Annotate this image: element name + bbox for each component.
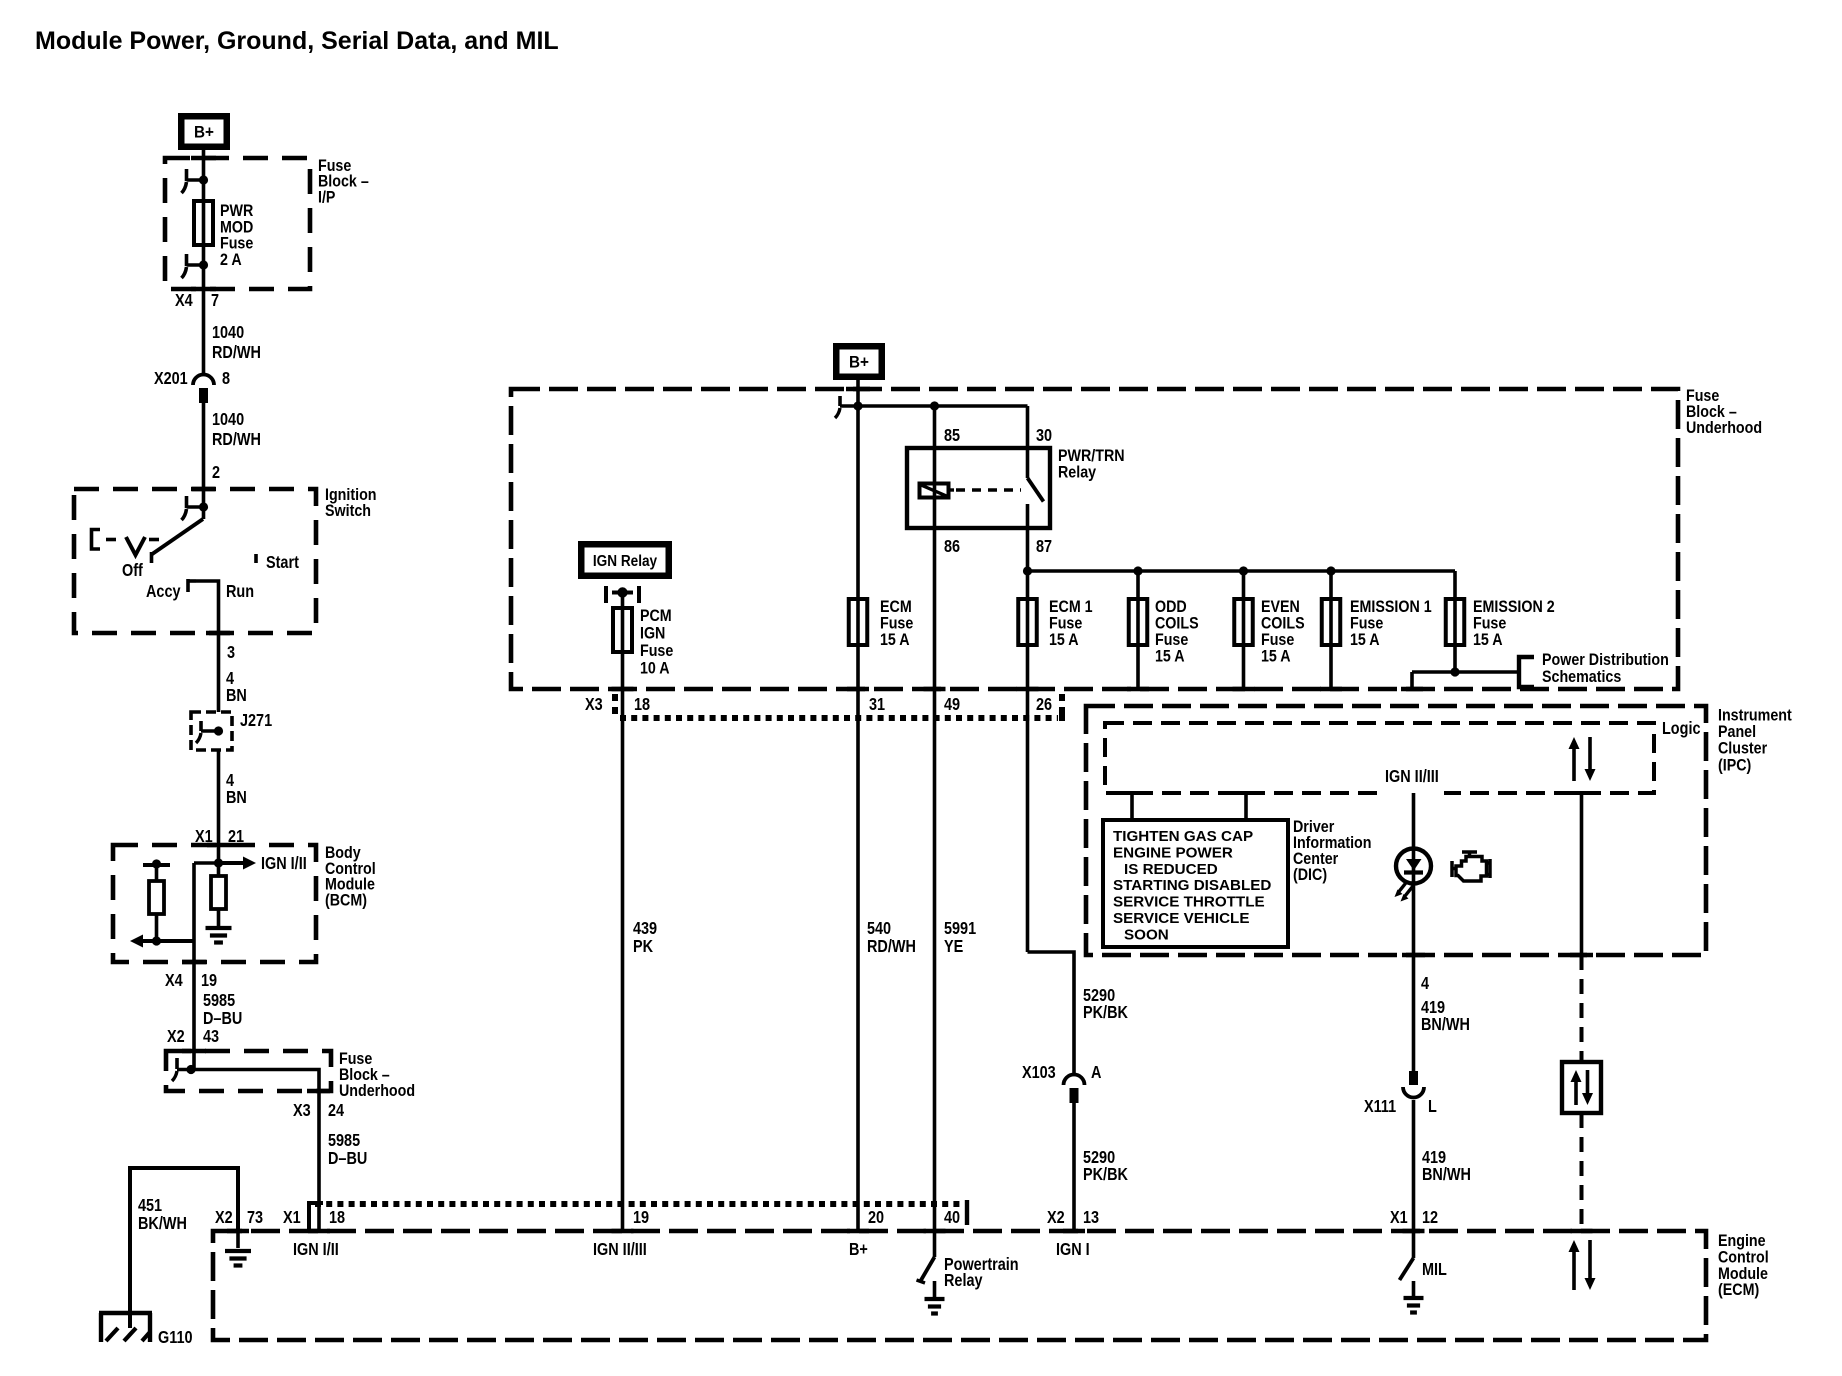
serial data dashed link lower (1580, 1113, 1584, 1231)
ignition switch blade (152, 519, 204, 563)
relay switch lower contact (1026, 504, 1030, 571)
ignition switch position bracket (92, 530, 101, 550)
label PWR/TRN Relay (1058, 447, 1125, 482)
svg-text:(ECM): (ECM) (1718, 1281, 1759, 1299)
engine control module dashed box (213, 1231, 1706, 1340)
svg-text:4: 4 (226, 772, 234, 790)
label Driver Information Center (DIC) (1293, 818, 1371, 884)
svg-text:(BCM): (BCM) (325, 891, 367, 909)
BCM arrow IGN I/II (219, 855, 307, 873)
wire Run contact (196, 581, 219, 712)
svg-text:PK/BK: PK/BK (1083, 1004, 1128, 1022)
underhood lower clip (172, 1058, 196, 1081)
svg-text:2 A: 2 A (220, 251, 242, 269)
svg-text:15 A: 15 A (1473, 631, 1503, 649)
svg-text:PCM: PCM (640, 607, 672, 625)
wire label 5985 D-BU (2) (328, 1132, 367, 1168)
svg-text:PK/BK: PK/BK (1083, 1166, 1128, 1184)
pin label X4 7 (175, 292, 219, 310)
svg-text:24: 24 (328, 1102, 344, 1120)
label Fuse Block I/P (318, 157, 369, 207)
driver information center box (1103, 820, 1288, 947)
label IGN I (ECM) (1056, 1241, 1090, 1259)
svg-text:15 A: 15 A (1155, 647, 1185, 665)
svg-text:B+: B+ (849, 1241, 868, 1259)
pin label X1 21 (195, 828, 244, 846)
wire B+ down to bus (856, 379, 860, 406)
pin label 87 (1036, 538, 1052, 556)
svg-text:5290: 5290 (1083, 987, 1115, 1005)
svg-text:7: 7 (211, 292, 219, 310)
label Start with tick (256, 554, 300, 572)
BCM resistor left (149, 881, 164, 914)
svg-text:IGN I/II: IGN I/II (293, 1241, 339, 1259)
pin label 85 (944, 427, 960, 445)
svg-text:IGN II/III: IGN II/III (1385, 768, 1439, 786)
wire label 5290 PK/BK (1083, 987, 1128, 1022)
label Instrument Panel Cluster (IPC) (1718, 706, 1792, 774)
relay 30 feed corner (1026, 406, 1030, 478)
svg-text:BN/WH: BN/WH (1421, 1016, 1470, 1034)
svg-text:419: 419 (1421, 999, 1445, 1017)
svg-text:Off: Off (122, 562, 143, 580)
svg-text:L: L (1428, 1098, 1437, 1116)
wire tap to PCM IGN fuse (621, 593, 625, 1233)
power symbol B+ (underhood feed) (833, 343, 885, 380)
ECM ground pin 73 (225, 1232, 251, 1266)
label ODD COILS Fuse 15 A (1155, 598, 1199, 666)
svg-text:31: 31 (869, 696, 885, 714)
power distribution bracket (1519, 657, 1534, 687)
connector X103 pin A (1022, 1064, 1102, 1103)
svg-text:IGN II/III: IGN II/III (593, 1241, 647, 1259)
svg-text:Power Distribution: Power Distribution (1542, 651, 1669, 669)
wire jog to ECM pin 13 (1028, 952, 1075, 1074)
svg-text:X2: X2 (167, 1028, 185, 1046)
connector X111 pin L (1364, 1071, 1437, 1116)
label Power Distribution Schematics (1542, 651, 1669, 686)
BCM arrow left (130, 935, 194, 948)
svg-text:X201: X201 (154, 370, 188, 388)
svg-text:PK: PK (633, 938, 654, 956)
pin label 2 (212, 464, 220, 482)
serial data box arrows (1571, 1070, 1594, 1105)
label PCM IGN Fuse 10 A (640, 607, 674, 678)
svg-text:BN: BN (226, 789, 247, 807)
label EMISSION 2 Fuse 15 A (1473, 598, 1555, 649)
svg-text:4: 4 (226, 670, 234, 688)
label MIL (1422, 1261, 1447, 1279)
svg-text:73: 73 (247, 1209, 263, 1227)
svg-text:5985: 5985 (328, 1132, 360, 1150)
fuse bus junction 87 (1023, 566, 1032, 575)
svg-text:Underhood: Underhood (1686, 419, 1762, 437)
wire label 540 RD/WH (867, 920, 916, 956)
wire label 5985 D-BU (203, 992, 242, 1028)
svg-text:419: 419 (1422, 1149, 1446, 1167)
svg-text:IGN Relay: IGN Relay (593, 553, 658, 570)
wire ECM1 fuse down (1026, 571, 1030, 952)
ground wire loop to G110 (130, 1168, 238, 1328)
wire EMISSION 2 fuse (1453, 571, 1457, 672)
svg-text:X1: X1 (283, 1209, 301, 1227)
wire J271 to BCM (217, 750, 221, 876)
fuse bus wire (1028, 566, 1456, 575)
svg-text:439: 439 (633, 920, 657, 938)
wire relay coil to ECM pin 40 (933, 406, 937, 1232)
label Accy (146, 583, 181, 601)
svg-text:2: 2 (212, 464, 220, 482)
svg-text:Switch: Switch (325, 502, 371, 520)
svg-text:540: 540 (867, 920, 891, 938)
BCM resistor right (211, 876, 226, 909)
dotted bus left bracket (309, 1203, 323, 1230)
svg-text:BK/WH: BK/WH (138, 1215, 187, 1233)
terminal clip top (fuse block I/P) (182, 169, 209, 193)
terminal clip bottom (fuse block I/P) (182, 254, 209, 278)
fuse ODD COILS 15A (1129, 599, 1148, 645)
svg-text:40: 40 (944, 1209, 960, 1227)
fuse block underhood dashed box (511, 389, 1678, 689)
svg-text:Schematics: Schematics (1542, 668, 1622, 686)
wire label 1040 RD/WH (2) (212, 411, 261, 449)
pin label 20 (868, 1209, 884, 1227)
wire ECM fuse column (856, 406, 860, 1232)
dotted bus (fuse block bottom) (620, 715, 1058, 721)
instrument panel cluster dashed box (1086, 706, 1706, 955)
serial data connector box (1562, 1062, 1601, 1113)
BCM pullup bar and dot (143, 859, 170, 881)
pin label 4 (1421, 975, 1429, 993)
check engine icon (1452, 852, 1490, 881)
label Off (122, 562, 143, 580)
BCM resistor right stub (217, 909, 221, 927)
svg-text:Underhood: Underhood (339, 1082, 415, 1100)
pin label 40 (944, 1209, 960, 1227)
pin label 31 (869, 696, 885, 714)
wire EMISSION 1 fuse (1329, 571, 1333, 689)
MIL driver ground (1404, 1281, 1424, 1313)
svg-text:19: 19 (633, 1209, 649, 1227)
pin label 19 (633, 1209, 649, 1227)
svg-text:I/P: I/P (318, 188, 335, 206)
label B+ (ECM) (849, 1241, 868, 1259)
fuse EMISSION 2 15A (1446, 599, 1465, 645)
splice J271 clip (196, 721, 223, 743)
svg-text:5985: 5985 (203, 992, 235, 1010)
power distribution reference wire (1412, 667, 1519, 689)
ignition switch dash 1 (106, 538, 116, 542)
body control module dashed box (113, 845, 316, 962)
MIL lamp emission arrows (1395, 882, 1414, 902)
wire label 5991 YE (944, 920, 976, 956)
svg-text:MIL: MIL (1422, 1261, 1447, 1279)
svg-text:YE: YE (944, 938, 963, 956)
pin label 26 (1036, 696, 1052, 714)
pin label X2 43 (167, 1028, 219, 1046)
underhood bus clip (835, 396, 840, 418)
pin label 3 (227, 644, 235, 662)
wire label 451 BK/WH (138, 1197, 187, 1233)
svg-text:IS REDUCED: IS REDUCED (1124, 861, 1218, 878)
MIL indicator lamp (1396, 849, 1431, 884)
svg-text:X1: X1 (1390, 1209, 1408, 1227)
label ECM Fuse 15 A (880, 598, 914, 649)
svg-text:D–BU: D–BU (328, 1150, 367, 1168)
connector X201 pin 8 (154, 370, 230, 403)
wire label 419 BN/WH (1421, 999, 1470, 1034)
BCM ground (206, 928, 232, 943)
svg-text:BN/WH: BN/WH (1422, 1166, 1471, 1184)
svg-text:A: A (1091, 1064, 1102, 1082)
label IGN II/III (1380, 768, 1444, 797)
BCM crossbar (157, 939, 195, 943)
svg-text:20: 20 (868, 1209, 884, 1227)
svg-text:Module Power, Ground, Serial D: Module Power, Ground, Serial Data, and M… (35, 27, 559, 55)
fuse block I/P dashed box (165, 158, 310, 289)
svg-text:Accy: Accy (146, 583, 181, 601)
label Fuse Block Underhood (lower) (339, 1050, 415, 1100)
svg-text:1040: 1040 (212, 411, 244, 429)
DIC stub right (1244, 793, 1248, 820)
svg-text:12: 12 (1422, 1209, 1438, 1227)
svg-text:X3: X3 (293, 1102, 311, 1120)
MIL driver switch (1400, 1232, 1414, 1280)
wire X201 to ignition switch (202, 403, 206, 507)
svg-text:X4: X4 (175, 292, 193, 310)
svg-text:(IPC): (IPC) (1718, 756, 1751, 774)
svg-text:5290: 5290 (1083, 1149, 1115, 1167)
BCM input junction (214, 858, 223, 867)
svg-text:BN: BN (226, 687, 247, 705)
splice J271 dashed box (191, 712, 232, 750)
svg-text:B+: B+ (194, 123, 214, 142)
accy contact clip (188, 579, 196, 592)
fuse ECM 1 15A (1018, 599, 1037, 645)
ECM serial data arrows (1569, 1240, 1596, 1290)
svg-text:13: 13 (1083, 1209, 1099, 1227)
dotted bus right separator (1059, 694, 1065, 721)
svg-text:18: 18 (329, 1209, 345, 1227)
svg-text:X111: X111 (1364, 1098, 1396, 1116)
pin label X3 18 with separator (585, 694, 650, 714)
BCM branch wire left (194, 863, 219, 1069)
pin label X2 73 (215, 1209, 263, 1227)
ignition switch dashed box (74, 489, 316, 633)
svg-text:IGN I: IGN I (1056, 1241, 1090, 1259)
svg-text:ENGINE POWER: ENGINE POWER (1113, 844, 1233, 861)
powertrain relay switch (917, 1232, 935, 1283)
svg-text:X2: X2 (215, 1209, 233, 1227)
svg-text:86: 86 (944, 538, 960, 556)
svg-text:SOON: SOON (1124, 926, 1169, 943)
wire jog to X3 24 (177, 1070, 319, 1233)
fuse PCM IGN 10A (613, 608, 632, 652)
svg-text:18: 18 (634, 696, 650, 714)
svg-text:8: 8 (222, 370, 230, 388)
DIC stub left (1130, 793, 1134, 820)
svg-text:15 A: 15 A (1261, 647, 1291, 665)
svg-text:87: 87 (1036, 538, 1052, 556)
label Body Control Module (BCM) (325, 844, 376, 910)
svg-text:RD/WH: RD/WH (212, 344, 261, 362)
svg-text:26: 26 (1036, 696, 1052, 714)
label EMISSION 1 Fuse 15 A (1350, 598, 1432, 649)
label Powertrain Relay (944, 1256, 1019, 1290)
BCM resistor left lower stub (152, 914, 161, 946)
label ECM 1 Fuse 15 A (1049, 598, 1093, 649)
dotted bus right bracket (965, 1200, 969, 1225)
fuse ECM 15A (849, 599, 868, 645)
label Ignition Switch (325, 486, 377, 520)
pin label X2 13 (1047, 1209, 1099, 1227)
svg-text:15 A: 15 A (880, 631, 910, 649)
wire label 4 BN (226, 670, 247, 705)
svg-text:X2: X2 (1047, 1209, 1065, 1227)
pin label X1 18 (283, 1209, 345, 1227)
svg-text:B+: B+ (849, 353, 869, 372)
label EVEN COILS Fuse 15 A (1261, 598, 1305, 666)
wire MIL lamp to X111 (1412, 883, 1416, 1071)
svg-text:30: 30 (1036, 427, 1052, 445)
svg-text:Run: Run (226, 583, 254, 601)
wire X111 to ECM pin 12 (1412, 1100, 1416, 1232)
ignition switch V mark (126, 537, 145, 555)
IPC serial data line solid (1580, 793, 1584, 955)
wire label 4 BN (2) (226, 772, 247, 807)
svg-text:3: 3 (227, 644, 235, 662)
svg-text:IGN: IGN (640, 624, 665, 642)
label Run (226, 583, 254, 601)
label IGN Relay box (578, 541, 672, 579)
svg-text:X103: X103 (1022, 1064, 1056, 1082)
svg-text:RD/WH: RD/WH (212, 431, 261, 449)
wire label 439 PK (633, 920, 657, 956)
svg-text:J271: J271 (240, 712, 272, 730)
IGN relay tap symbol (606, 586, 639, 603)
label IGN I/II (ECM) (293, 1241, 339, 1259)
svg-text:Relay: Relay (944, 1272, 983, 1290)
svg-text:TIGHTEN GAS CAP: TIGHTEN GAS CAP (1113, 828, 1253, 845)
svg-text:15 A: 15 A (1049, 631, 1079, 649)
svg-text:451: 451 (138, 1197, 162, 1215)
svg-text:10 A: 10 A (640, 659, 670, 677)
wire label 419 BN/WH (2) (1422, 1149, 1471, 1184)
svg-text:5991: 5991 (944, 920, 976, 938)
ignition switch pin 2 clip (182, 496, 209, 520)
svg-text:Fuse: Fuse (640, 642, 674, 660)
PWR/TRN relay box (907, 448, 1050, 528)
wire ODD COILS fuse (1136, 571, 1140, 689)
label Logic (1662, 720, 1701, 738)
fuse EMISSION 1 15A (1322, 599, 1341, 645)
ignition switch dash 2 (149, 538, 159, 542)
svg-text:RD/WH: RD/WH (867, 938, 916, 956)
relay switch blade (1028, 478, 1044, 502)
label J271 (240, 712, 272, 730)
fuse PWR MOD 2A (194, 201, 213, 245)
svg-text:SERVICE VEHICLE: SERVICE VEHICLE (1113, 910, 1249, 927)
bus wire B+ to relay (840, 401, 1028, 410)
svg-text:85: 85 (944, 427, 960, 445)
svg-text:19: 19 (201, 972, 217, 990)
svg-text:(DIC): (DIC) (1293, 866, 1327, 884)
fuse block underhood lower dashed box (166, 1051, 331, 1091)
power symbol B+ (I/P feed) (178, 113, 230, 150)
wire label 5290 PK/BK (2) (1083, 1149, 1128, 1184)
svg-text:STARTING DISABLED: STARTING DISABLED (1113, 877, 1271, 894)
svg-text:X4: X4 (165, 972, 183, 990)
svg-text:Relay: Relay (1058, 463, 1096, 481)
label PWR MOD Fuse 2 A (220, 202, 254, 269)
pin label 86 (944, 538, 960, 556)
pin label X4 19 (165, 972, 217, 990)
DIC message text (1113, 828, 1271, 943)
fuse EVEN COILS 15A (1234, 599, 1253, 645)
pin label X3 24 (293, 1102, 344, 1120)
svg-text:D–BU: D–BU (203, 1010, 242, 1028)
svg-text:Start: Start (266, 554, 300, 572)
svg-text:4: 4 (1421, 975, 1429, 993)
label G110 (158, 1329, 193, 1347)
svg-text:Logic: Logic (1662, 720, 1701, 738)
pin label X1 12 (1390, 1209, 1438, 1227)
svg-text:1040: 1040 (212, 324, 244, 342)
wire EVEN COILS fuse (1242, 571, 1246, 689)
logic dashed box (1105, 723, 1654, 793)
svg-text:SERVICE THROTTLE: SERVICE THROTTLE (1113, 894, 1265, 911)
serial data dashed link upper (1580, 955, 1584, 1062)
chassis ground G110 (99, 1313, 152, 1342)
relay actuator dashed link (956, 488, 1021, 491)
label IGN II/III (ECM) (593, 1241, 647, 1259)
wire label 1040 RD/WH (212, 324, 261, 362)
svg-text:G110: G110 (158, 1329, 193, 1347)
label Fuse Block Underhood (1686, 387, 1762, 437)
wire X103 to ECM pin 13 (1072, 1103, 1076, 1232)
wire B+ to PWR MOD fuse (202, 150, 206, 374)
title text (35, 27, 559, 55)
relay coil (920, 484, 955, 498)
dotted serial bus (ECM top) (315, 1201, 963, 1207)
pin label 30 (1036, 427, 1052, 445)
label Engine Control Module (ECM) (1718, 1232, 1769, 1300)
powertrain relay ground (925, 1281, 945, 1314)
logic serial data arrows (1569, 737, 1596, 781)
svg-text:49: 49 (944, 696, 960, 714)
pin label 49 (944, 696, 960, 714)
wire logic to MIL lamp (1412, 793, 1416, 850)
svg-text:IGN I/II: IGN I/II (261, 855, 307, 873)
svg-text:15 A: 15 A (1350, 631, 1380, 649)
svg-text:43: 43 (203, 1028, 219, 1046)
svg-text:X3: X3 (585, 696, 603, 714)
